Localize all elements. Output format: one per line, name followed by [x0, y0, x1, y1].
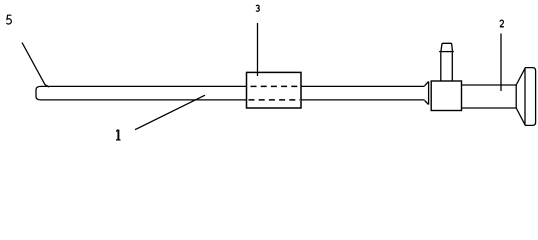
stopcock collar — [439, 51, 454, 53]
block 3 — [247, 72, 302, 108]
stopcock stem — [441, 52, 453, 81]
taper cone tube to housing — [425, 81, 429, 104]
dashed hidden line top — [248, 85, 301, 87]
label 2 — [500, 20, 504, 27]
leader line to 5 — [22, 43, 49, 88]
eyepiece cup — [525, 68, 536, 126]
label 5 — [7, 15, 12, 24]
leader line to 2 — [500, 34, 502, 92]
main body cylinder — [462, 85, 517, 108]
valve housing block — [431, 81, 461, 111]
tube 1 right section — [301, 86, 425, 100]
label 3 — [256, 5, 259, 11]
label 1 — [116, 130, 121, 140]
leader line to 3 — [257, 23, 259, 76]
leader line to 1 — [135, 95, 205, 130]
dashed hidden line bottom — [248, 99, 301, 101]
eyepiece funnel — [516, 68, 525, 125]
tube 1 left section with rounded cap — [36, 86, 247, 100]
stopcock cap — [441, 43, 453, 51]
